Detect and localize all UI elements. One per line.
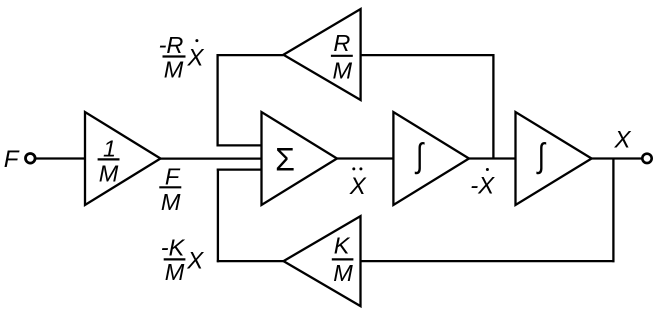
wire vertical bottom-left feedback rise — [217, 169, 219, 263]
svg-text:M: M — [333, 58, 353, 84]
label integral sign 1 — [414, 137, 424, 175]
svg-text:M: M — [333, 260, 353, 286]
label integral sign 2 — [536, 137, 546, 175]
svg-text:F: F — [4, 146, 20, 173]
amplifier 1/M triangle — [85, 112, 161, 205]
integrator U2 triangle — [516, 112, 592, 205]
svg-text:M: M — [99, 161, 119, 187]
integrator U1 triangle — [393, 112, 469, 205]
svg-text:F: F — [165, 164, 181, 190]
svg-text:M: M — [164, 57, 184, 83]
svg-text:X: X — [187, 45, 205, 72]
svg-text:-K: -K — [161, 235, 186, 261]
svg-text:Σ: Σ — [275, 141, 295, 177]
dots of x-double-dot — [352, 167, 355, 170]
svg-text:∫: ∫ — [414, 137, 424, 175]
wire vertical top-right feedback tap — [492, 54, 494, 159]
svg-text:∫: ∫ — [536, 137, 546, 175]
svg-text:1: 1 — [103, 135, 116, 161]
label F/M fraction bar — [159, 186, 181, 188]
label R/M fraction bar in feedback amp — [331, 55, 353, 57]
wire bottom feedback left segment — [217, 260, 284, 262]
svg-text:-R: -R — [159, 32, 184, 58]
wire amp 1/M output to summer — [161, 157, 262, 159]
svg-text:X: X — [186, 247, 204, 274]
svg-text:M: M — [165, 259, 185, 285]
wire integrator 2 to output terminal — [592, 157, 643, 159]
wire bottom feedback right segment — [361, 260, 615, 262]
wire integrator 1 to integrator 2 — [469, 157, 516, 159]
label K/M fraction bar in feedback amp — [332, 258, 354, 260]
svg-text:R: R — [333, 30, 350, 56]
wire vertical output tap down — [612, 159, 614, 263]
damping feedback amp R/M triangle — [283, 9, 360, 100]
label -R/M fraction bar top-left — [163, 55, 186, 57]
input terminal circle — [26, 154, 36, 164]
wire summer to integrator 1 — [337, 157, 393, 159]
output terminal circle — [642, 154, 651, 163]
summer triangle — [262, 112, 338, 205]
svg-text:X: X — [614, 126, 632, 153]
wire input F to amp 1/M — [36, 157, 85, 159]
wire summer bottom input — [217, 168, 262, 170]
wire top feedback right segment — [361, 54, 495, 56]
spring feedback amp K/M triangle — [284, 216, 361, 306]
label 1/M fraction bar — [98, 158, 120, 160]
label -K/M fraction bar bottom-left — [164, 258, 186, 260]
svg-text:-X: -X — [470, 173, 495, 200]
svg-text:X: X — [349, 173, 367, 200]
wire summer top input — [217, 144, 262, 146]
wire vertical top-left feedback drop — [216, 54, 218, 147]
wire top feedback left segment — [217, 54, 284, 56]
dot of minus-x-dot — [486, 168, 489, 171]
dot of x-dot factor top-left — [195, 39, 198, 42]
svg-text:K: K — [334, 233, 351, 259]
svg-text:M: M — [161, 189, 181, 215]
